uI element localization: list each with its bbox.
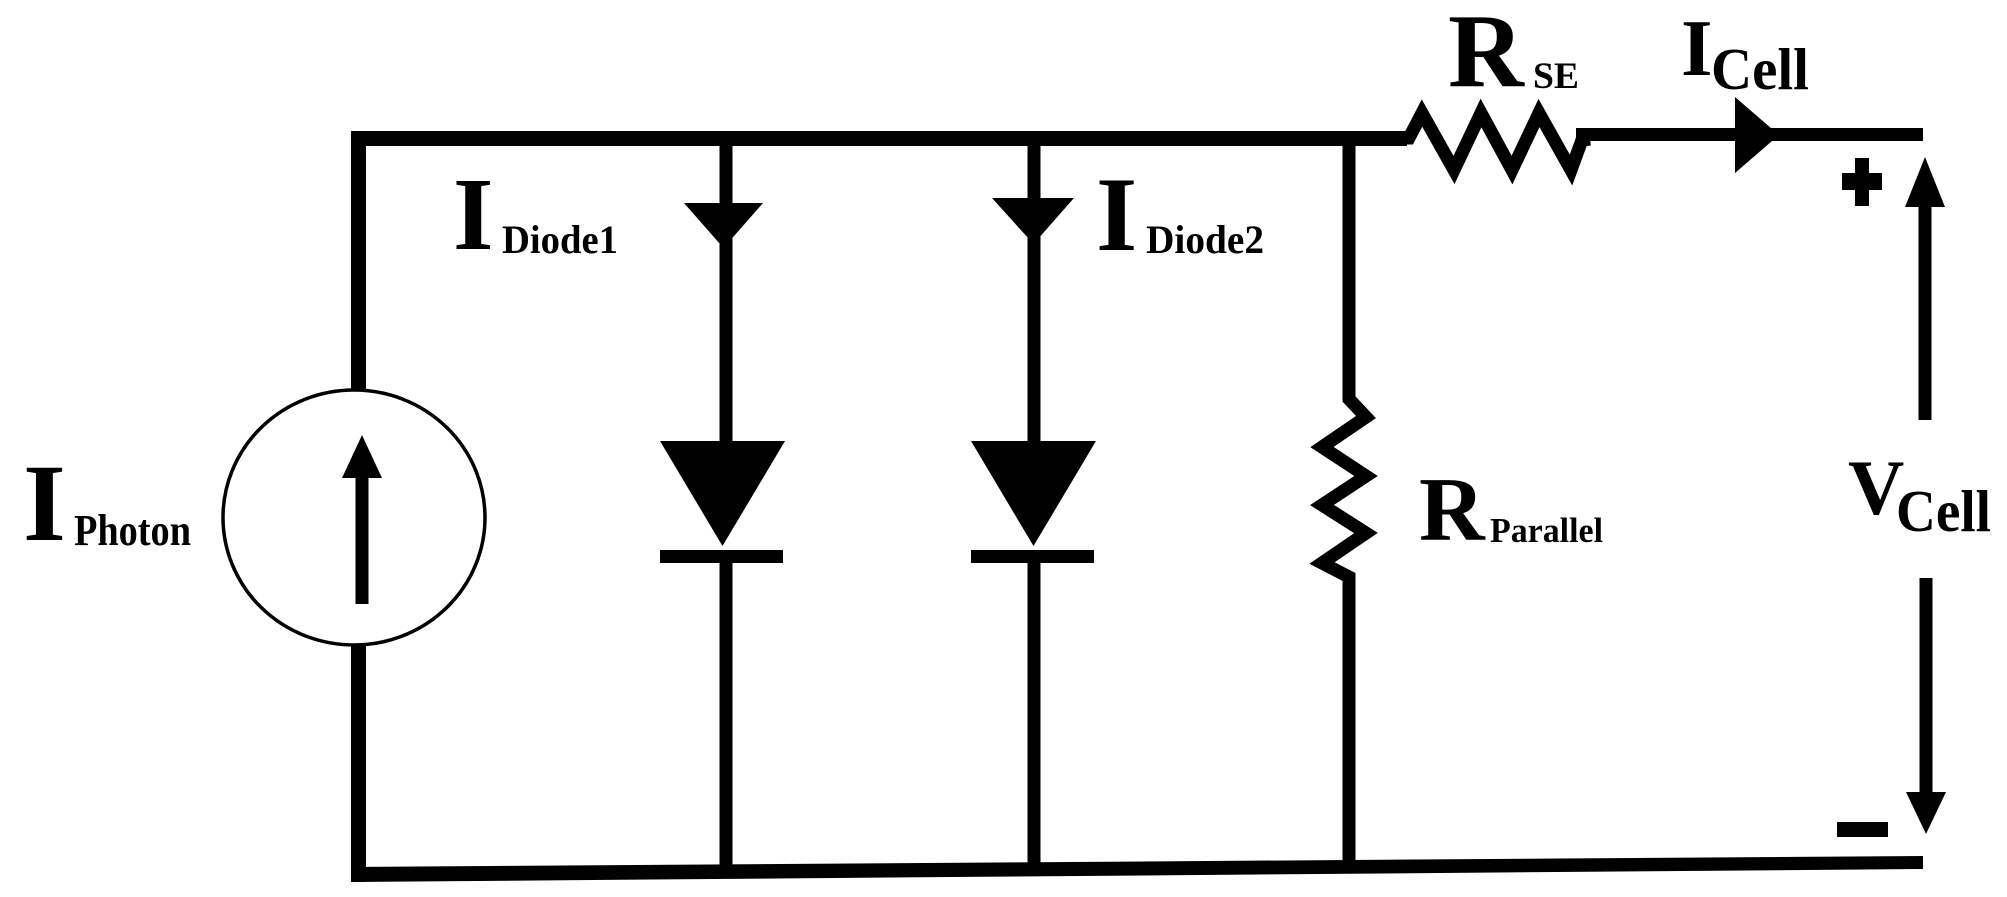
wire bottom horizontal xyxy=(351,856,1923,882)
svg-text:Diode2: Diode2 xyxy=(1146,217,1264,262)
diode D2 cathode wire xyxy=(1028,563,1041,873)
svg-text:I: I xyxy=(1681,3,1713,93)
diode D1 anode wire xyxy=(720,146,733,442)
label I_Diode1 xyxy=(453,157,618,272)
svg-text:Cell: Cell xyxy=(1896,478,1991,544)
wire left vertical (current source to bottom wire) xyxy=(351,645,366,882)
wire top horizontal xyxy=(351,131,1407,146)
label I_Photon xyxy=(23,442,191,564)
svg-text:R: R xyxy=(1419,459,1486,560)
resistor R_Parallel zigzag xyxy=(1322,388,1366,588)
label R_Parallel xyxy=(1419,459,1603,560)
minus sign xyxy=(1837,822,1888,837)
diode D2 current arrowhead xyxy=(992,198,1074,244)
label V_Cell xyxy=(1848,444,1991,544)
svg-text:I: I xyxy=(1096,156,1137,273)
diode D2 cathode bar xyxy=(971,550,1094,563)
wire output horizontal xyxy=(1576,128,1923,141)
plus sign xyxy=(1842,158,1882,206)
svg-text:Cell: Cell xyxy=(1711,36,1809,102)
diode D1 triangle xyxy=(660,441,785,546)
svg-text:SE: SE xyxy=(1533,56,1579,97)
V_Cell arrow upper segment xyxy=(1905,157,1945,420)
current source I_Photon circle xyxy=(223,390,485,645)
V_Cell arrow lower segment xyxy=(1906,578,1946,834)
label R_SE xyxy=(1448,0,1579,109)
diode D2 anode wire xyxy=(1028,146,1041,442)
svg-text:I: I xyxy=(453,157,493,272)
diode D2 triangle xyxy=(971,441,1096,546)
current source arrow xyxy=(342,435,382,604)
diode D1 cathode wire xyxy=(720,563,733,873)
svg-text:I: I xyxy=(23,442,66,564)
svg-text:R: R xyxy=(1448,0,1525,109)
diode D1 cathode bar xyxy=(660,550,783,563)
resistor R_SE zigzag xyxy=(1400,113,1590,170)
resistor R_Parallel bottom lead xyxy=(1343,581,1356,871)
resistor R_Parallel top lead xyxy=(1343,140,1356,396)
svg-text:Photon: Photon xyxy=(74,506,191,555)
label I_Cell xyxy=(1681,3,1809,102)
wire left vertical (top wire to current source) xyxy=(351,131,366,391)
svg-text:Parallel: Parallel xyxy=(1490,511,1603,550)
diode D1 current arrowhead xyxy=(684,203,763,248)
svg-text:Diode1: Diode1 xyxy=(502,217,618,262)
label I_Diode2 xyxy=(1096,156,1264,273)
arrowhead I_Cell current direction xyxy=(1735,97,1779,173)
